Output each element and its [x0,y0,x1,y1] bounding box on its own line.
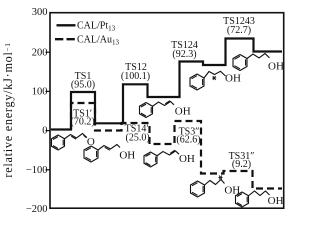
label TS12 (100.1) [121,62,150,82]
dashed energy path CAL/Au13 [71,103,282,189]
molecule M1 cinnamaldehyde (reactant) [52,134,88,151]
label TS3'' (62.6) [176,126,200,145]
svg-text:OH: OH [179,153,195,165]
svg-text:200: 200 [32,47,48,58]
svg-text:100: 100 [32,86,48,97]
svg-text:(9.2): (9.2) [232,159,251,170]
svg-text:(92.3): (92.3) [172,49,196,60]
svg-text:(25.0): (25.0) [126,133,150,144]
solid energy path CAL/Pt13 [51,39,282,130]
asterisk of M7 [219,176,223,180]
plot frame [50,13,284,209]
molecule M5 phenylpropanol (solid final) [233,54,270,71]
asterisk of M4 [212,76,216,80]
molecule M8 phenylpropanol (dashed final) [236,191,270,207]
svg-text:OH: OH [175,106,191,118]
molecule M2 cinnamyl alcohol [84,145,120,163]
label TS124 (92.3) [171,40,198,60]
svg-text:OH: OH [268,61,284,73]
label TS14' (25.0) [125,123,150,143]
svg-text:(62.6): (62.6) [176,135,200,146]
legend dashed swatch [55,38,75,40]
label TS31'' (9.2) [229,151,255,170]
svg-text:(95.0): (95.0) [71,79,95,90]
svg-text:relative energy/kJ·mol−1: relative energy/kJ·mol−1 [1,42,15,177]
label TS1' (70.2) [71,108,95,127]
svg-text:OH: OH [119,150,135,162]
molecule M4 radical intermediate (asterisk) [190,71,226,90]
svg-text:300: 300 [32,7,48,18]
molecule M6 propenol (dashed route) [144,150,179,167]
label TS1 (95.0) [71,71,95,90]
svg-text:−200: −200 [26,204,48,215]
svg-text:(100.1): (100.1) [121,71,150,82]
svg-text:OH: OH [225,73,241,85]
molecule M3 propenol intermediate [140,101,175,118]
legend solid swatch [57,24,76,26]
svg-text:(72.7): (72.7) [227,25,251,36]
label TS1243 (72.7) [223,16,255,36]
svg-text:(70.2): (70.2) [71,116,95,127]
svg-text:OH: OH [268,195,284,207]
molecule M7 radical (dashed route, asterisk) [191,180,225,198]
y-axis ticks [46,52,51,170]
svg-text:−100: −100 [26,165,48,176]
svg-text:0: 0 [42,126,47,137]
y-axis tick labels [26,7,48,215]
